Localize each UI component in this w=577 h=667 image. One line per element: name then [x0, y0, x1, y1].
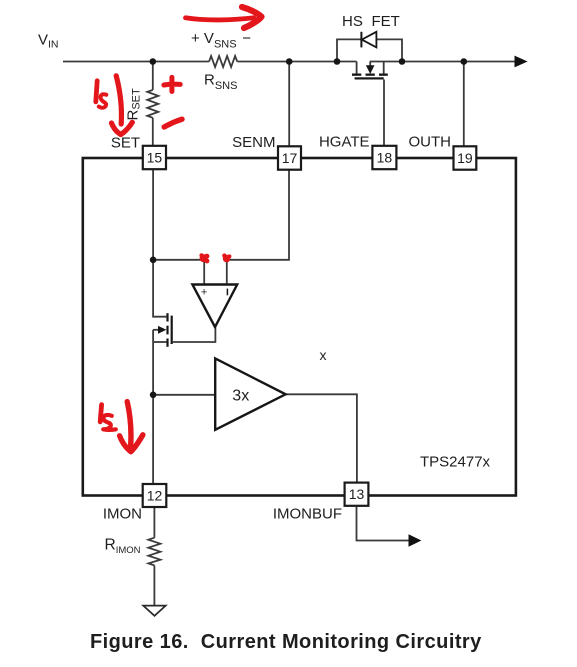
- svg-text:Figure 16. Current Monitoring: Figure 16. Current Monitoring Circuitry: [90, 631, 482, 653]
- svg-text:SENM: SENM: [232, 134, 275, 151]
- svg-text:18: 18: [377, 150, 393, 166]
- svg-text:17: 17: [282, 150, 298, 166]
- svg-text:FET: FET: [372, 13, 400, 30]
- svg-text:19: 19: [457, 150, 473, 166]
- svg-text:OUTH: OUTH: [409, 134, 452, 151]
- svg-text:13: 13: [349, 486, 365, 502]
- svg-text:IMONBUF: IMONBUF: [273, 506, 342, 523]
- svg-text:+ VSNS −: + VSNS −: [191, 30, 251, 51]
- svg-text:RIMON: RIMON: [105, 537, 141, 557]
- svg-text:TPS2477x: TPS2477x: [420, 454, 491, 471]
- svg-text:HS: HS: [342, 13, 363, 30]
- svg-text:12: 12: [147, 488, 163, 504]
- svg-text:RSNS: RSNS: [204, 72, 237, 93]
- svg-text:HGATE: HGATE: [319, 134, 370, 151]
- svg-text:15: 15: [147, 150, 163, 166]
- svg-text:x: x: [320, 347, 327, 363]
- svg-text:+: +: [201, 286, 207, 298]
- svg-text:IMON: IMON: [103, 506, 142, 523]
- svg-text:SET: SET: [111, 135, 140, 152]
- svg-text:3x: 3x: [232, 388, 249, 405]
- svg-text:RSET: RSET: [125, 88, 143, 121]
- svg-text:VIN: VIN: [38, 32, 59, 51]
